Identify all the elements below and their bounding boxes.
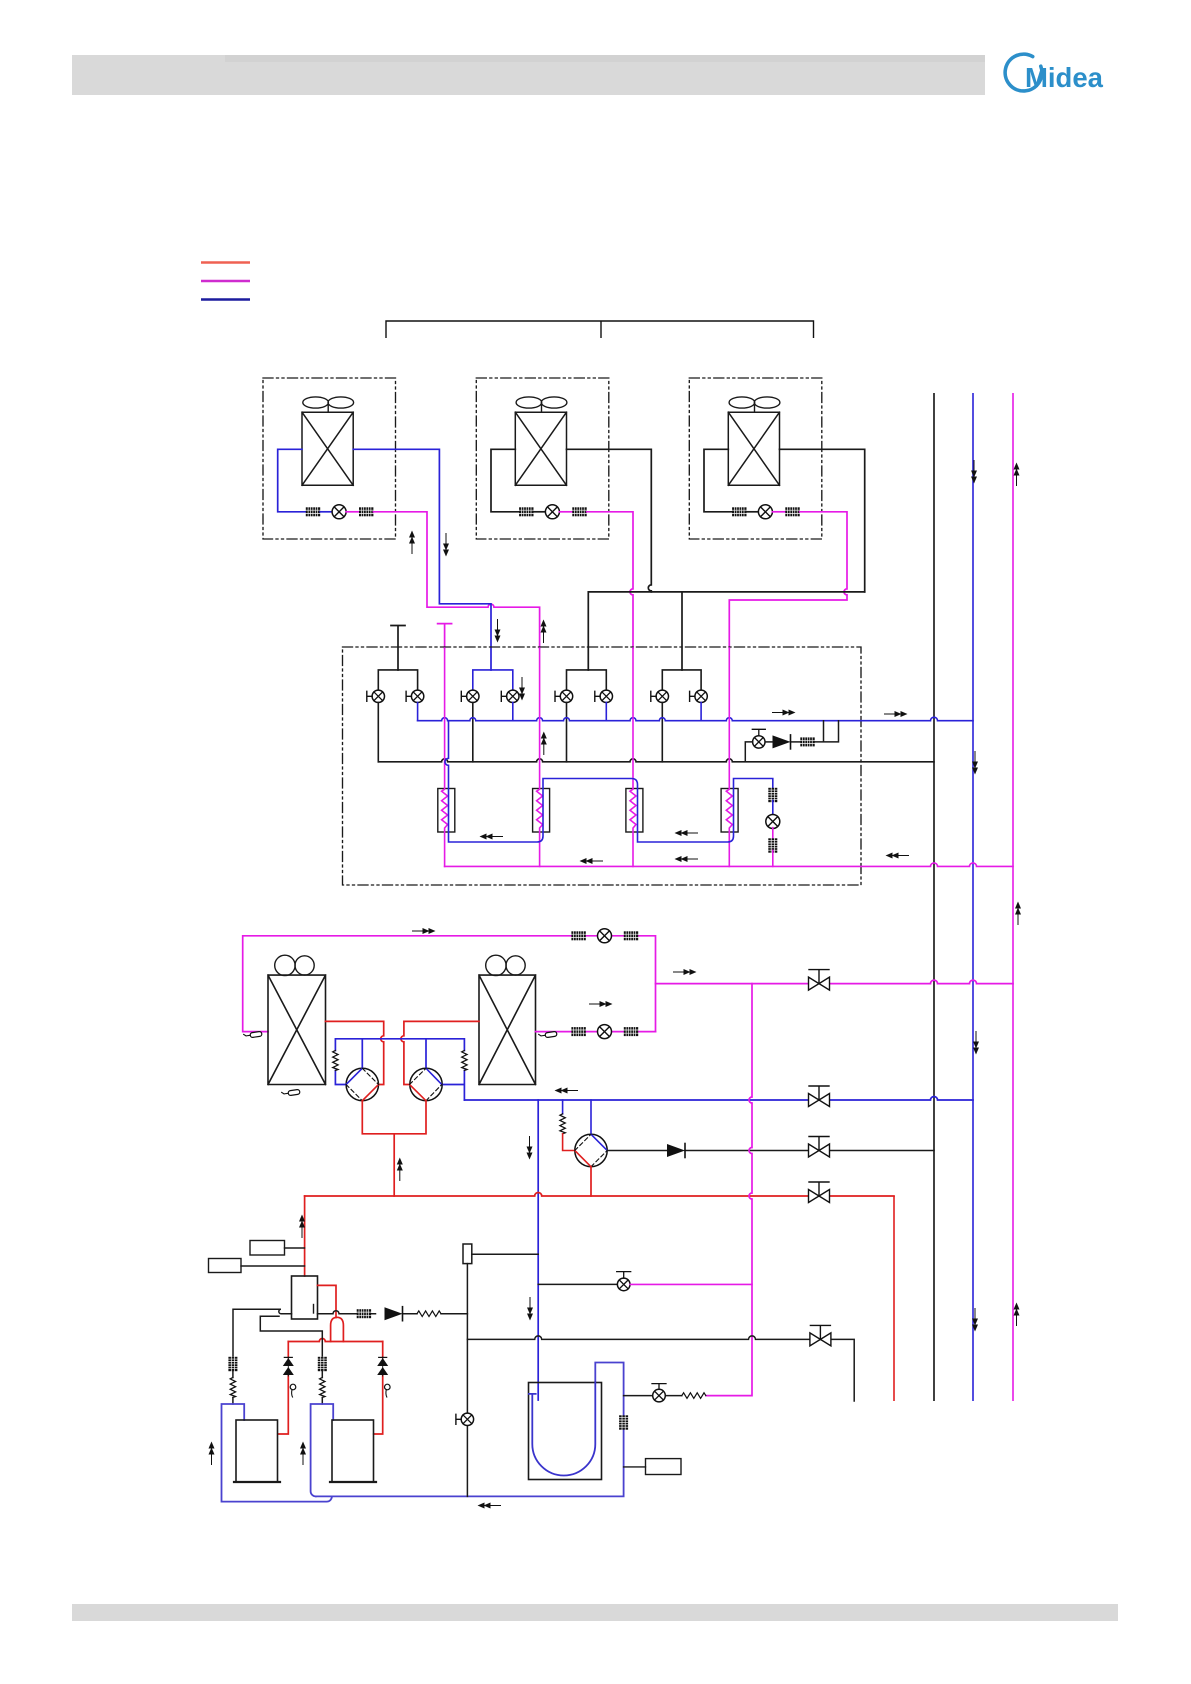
- oil nozzle 1: [290, 1384, 296, 1397]
- wire unit2 gas side: [491, 449, 519, 512]
- heat exchanger subcooler 3: [626, 789, 643, 833]
- filter unit3 b: [785, 507, 799, 516]
- check valve gas service: [667, 1144, 685, 1158]
- wire red discharge header: [288, 1339, 382, 1342]
- capillary subcool outlet upper: [768, 788, 777, 802]
- arrow left liquid bus 3: [886, 853, 910, 859]
- wire gas manifold to MS box: [588, 592, 864, 670]
- filter unit1 b: [359, 507, 373, 516]
- wire: [563, 1134, 575, 1151]
- ball valve service lower: [810, 1325, 831, 1346]
- wire magenta branch 2 coil: [537, 648, 543, 866]
- wire red HX-A to 4wv1: [326, 1021, 384, 1084]
- wire pair1 right leg: [417, 703, 419, 721]
- arrow right magenta top: [412, 928, 436, 934]
- wire red discharge manifold: [362, 1101, 426, 1196]
- heat exchanger ODU B: [479, 975, 536, 1084]
- wire magenta drop line: [706, 984, 752, 1396]
- wire strainer to gas drop: [472, 1253, 538, 1255]
- expansion valve unit 1: [332, 505, 346, 519]
- arrow left odu gas bus: [555, 1088, 579, 1094]
- solenoid valve pair1 left: [367, 690, 385, 702]
- wire black gas service line: [607, 1150, 934, 1152]
- spring suction 2: [320, 1378, 325, 1398]
- wire: [320, 511, 332, 513]
- arrow down ms leg: [519, 677, 525, 701]
- solenoid valve pair2 left: [461, 690, 479, 702]
- check valve compressor 1: [283, 1357, 294, 1376]
- wire red to compressor 1: [278, 1342, 289, 1435]
- solenoid valve pair4 right: [690, 690, 708, 702]
- filter unit2 b: [572, 507, 586, 516]
- wire blue ODU gas bus: [464, 1097, 973, 1100]
- label accumulator box: [624, 1459, 681, 1475]
- wire: [745, 742, 752, 762]
- wire red discharge bus: [305, 1193, 894, 1197]
- indoor unit 1 enclosure: [263, 378, 396, 539]
- arrow up magenta riser 1: [1014, 463, 1020, 487]
- arrow down branch gas: [495, 619, 501, 643]
- wire 4wv3 bottom: [590, 1167, 592, 1196]
- solenoid valve bypass: [753, 736, 765, 748]
- arrow left subcool 2: [675, 830, 699, 836]
- wire black oil balance line: [624, 1395, 682, 1397]
- wire blue riser: [972, 393, 974, 1401]
- valve oil branch: [617, 1272, 631, 1291]
- expansion valve unit 2: [545, 505, 559, 519]
- wire 4wv3 feed: [562, 1100, 564, 1114]
- wire unit1 gas riser: [353, 449, 491, 670]
- check valve compressor 2: [377, 1357, 388, 1376]
- arrow down blue riser 4: [972, 1308, 978, 1332]
- bracket over indoor units: [386, 321, 814, 338]
- arrow down blue riser 2: [972, 751, 978, 775]
- wire pair4 left leg: [661, 703, 663, 762]
- ball valve gas bus: [809, 1086, 830, 1107]
- wire oil return branch 2: [260, 1316, 322, 1356]
- wire pair3 right leg: [605, 703, 607, 721]
- header gray bar: [72, 55, 985, 95]
- arrow down blue riser 1: [971, 460, 977, 484]
- expansion valve subcool: [766, 815, 780, 829]
- wire 4wv3 top: [590, 1100, 592, 1134]
- label sensor box 1: [250, 1241, 305, 1256]
- wire red HX-B to 4wv2: [401, 1021, 479, 1084]
- wire magenta liquid bus: [445, 863, 1013, 866]
- filter unit2 a: [519, 507, 533, 516]
- wire: [321, 1371, 323, 1404]
- arrow up discharge: [397, 1158, 403, 1182]
- heat exchanger subcooler 4: [721, 789, 738, 833]
- arrow up ms branch: [541, 732, 547, 756]
- wire unit1 liquid riser: [373, 512, 539, 648]
- arrow right blue bus end: [884, 711, 908, 717]
- indoor unit 2 enclosure: [476, 378, 609, 539]
- wire: [772, 801, 774, 816]
- arrow up branch2: [541, 620, 547, 644]
- node capped service stem: [391, 626, 405, 671]
- wire bypass drops: [814, 721, 838, 742]
- sensor HX-A inlet: [244, 1031, 262, 1038]
- wire blue gas bus: [418, 717, 973, 721]
- wire: [346, 511, 359, 513]
- wire: [232, 1371, 234, 1404]
- wire magenta HX-B outlet: [536, 1031, 656, 1033]
- fan unit 2: [516, 397, 567, 412]
- wire blue compressor 2 suction: [311, 1404, 334, 1496]
- wire pair3 left leg: [566, 703, 568, 762]
- wire: [791, 741, 801, 743]
- wire separator gas line: [318, 1311, 468, 1314]
- solenoid valve pair4 left: [651, 690, 669, 702]
- valve oil balance: [652, 1384, 666, 1402]
- wire red riser: [893, 1196, 895, 1401]
- arrow up magenta riser 3: [1014, 1303, 1020, 1327]
- wire bracket pair2: [473, 670, 513, 690]
- wire blue subcooling chain: [445, 721, 773, 842]
- filter suction 2: [318, 1357, 327, 1371]
- capillary subcool outlet lower: [768, 838, 777, 852]
- arrow down accum drop 2: [527, 1297, 533, 1321]
- wire: [772, 511, 785, 513]
- Midea logo: [1005, 54, 1104, 93]
- arrow left liquid bus 2: [675, 856, 699, 862]
- heat exchanger subcooler 2: [533, 789, 550, 833]
- wire magenta branch 1 coil: [442, 648, 448, 866]
- wire black service line lower: [467, 1336, 854, 1401]
- legend red line: [201, 261, 250, 263]
- wire blue suction bus: [316, 1363, 624, 1497]
- check valve bypass: [773, 735, 791, 749]
- arrow up separator: [299, 1215, 305, 1239]
- wire pair2 left leg: [472, 703, 474, 762]
- legend magenta line: [201, 280, 250, 282]
- node capped liquid stub: [438, 624, 452, 648]
- wire pair2 right leg: [512, 703, 514, 721]
- fan ODU A: [275, 955, 315, 975]
- wire blue compressor 1 suction: [222, 1404, 332, 1502]
- wire red discharge tee loop: [331, 1317, 344, 1341]
- capillary bypass: [800, 737, 814, 746]
- wire red to compressor 2: [374, 1342, 383, 1435]
- filter separator gas: [357, 1309, 371, 1318]
- spring oil balance: [682, 1393, 706, 1399]
- wire unit1 gas side: [278, 449, 306, 512]
- oil separator: [292, 1276, 318, 1319]
- arrow right liquid branch: [673, 969, 697, 975]
- wire accumulator inlet drop: [537, 1100, 539, 1400]
- wire: [559, 511, 572, 513]
- wire: [772, 828, 774, 840]
- spring suction right: [462, 1051, 467, 1071]
- heat exchanger unit 1: [302, 412, 353, 485]
- arrow up comp1: [209, 1442, 215, 1466]
- wire: [765, 741, 773, 743]
- wire: [772, 851, 774, 867]
- four-way valve 3: [575, 1134, 607, 1166]
- mode switch box enclosure: [343, 647, 862, 885]
- svg-text:Midea: Midea: [1025, 62, 1104, 93]
- wire unit3 gas side: [704, 449, 732, 512]
- wire unit2 liquid riser: [587, 512, 633, 648]
- strainer box: [463, 1244, 472, 1264]
- legend blue line: [201, 298, 250, 300]
- heat exchanger unit 2: [515, 412, 566, 485]
- wire black riser: [933, 393, 935, 1401]
- label sensor box 2: [209, 1259, 305, 1273]
- compressor 1: [234, 1420, 280, 1482]
- heat exchanger subcooler 1: [438, 789, 455, 833]
- wire magenta oil valve branch: [630, 1283, 752, 1285]
- compressor 2: [330, 1420, 376, 1482]
- four-way valve 2: [410, 1068, 443, 1100]
- arrow up comp2: [300, 1442, 306, 1466]
- expansion valve ODU mid: [598, 1025, 612, 1039]
- solenoid valve pair2 right: [501, 690, 519, 702]
- spring suction 1: [230, 1378, 235, 1398]
- wire red separator inlet: [304, 1196, 306, 1276]
- accumulator: [529, 1383, 602, 1480]
- filter ODU top a: [571, 931, 585, 940]
- oil nozzle 2: [385, 1384, 391, 1397]
- wire unit3 liquid riser: [729, 512, 847, 648]
- filter unit1 a: [306, 507, 320, 516]
- filter ODU top b: [624, 931, 638, 940]
- wire unit2 gas riser: [567, 449, 652, 592]
- filter unit3 a: [732, 507, 746, 516]
- fan ODU B: [486, 955, 525, 975]
- wire pair4 right leg: [700, 703, 702, 721]
- fan unit 1: [303, 397, 354, 412]
- ball valve gas service: [809, 1137, 830, 1158]
- wire black oil valve branch: [538, 1283, 617, 1285]
- wire pair1 left leg: [377, 703, 379, 762]
- arrow right blue bus ms: [772, 710, 796, 716]
- wire unit3 gas riser: [780, 449, 865, 592]
- wire magenta branch 4 coil: [726, 648, 732, 866]
- filter ODU mid a: [571, 1027, 585, 1036]
- arrow left subcool 1: [480, 834, 504, 840]
- wire: [747, 511, 759, 513]
- spring suction left: [333, 1051, 338, 1071]
- wire magenta riser: [1012, 393, 1014, 1401]
- arrow up magenta riser 2: [1015, 902, 1021, 926]
- arrow left suction bus: [478, 1503, 502, 1509]
- wire magenta branch 3 coil: [630, 648, 636, 866]
- sensor HX-B outlet: [539, 1031, 557, 1038]
- arrow left liquid bus 1: [580, 858, 604, 864]
- indoor unit 3 enclosure: [689, 378, 822, 539]
- filter suction bus: [619, 1415, 628, 1429]
- wire oil return hairpin: [233, 1309, 292, 1356]
- arrow down blue riser 3: [973, 1031, 979, 1055]
- ball valve liquid branch: [809, 970, 830, 991]
- wire liquid equalize vertical: [466, 1264, 468, 1497]
- spring 4wv3 feed: [560, 1114, 565, 1134]
- solenoid valve pair3 left: [555, 690, 573, 702]
- wire bracket pair4: [662, 670, 701, 690]
- sensor HX-A lower: [282, 1089, 300, 1096]
- expansion valve liquid equalize: [456, 1413, 474, 1425]
- expansion valve unit 3: [758, 505, 772, 519]
- wire bracket pair3: [567, 670, 607, 690]
- heat exchanger ODU A: [268, 975, 326, 1084]
- solenoid valve pair1 right: [406, 690, 424, 702]
- wire blue suction manifold: [335, 1039, 464, 1100]
- spring separator gas: [417, 1311, 441, 1317]
- arrow up unit1: [409, 531, 415, 555]
- wire bracket pair1: [378, 670, 417, 690]
- wire red separator outlet: [318, 1285, 337, 1317]
- wire black high-pressure bus: [378, 759, 934, 762]
- wire magenta liquid branch: [656, 980, 1014, 984]
- solenoid valve pair3 right: [595, 690, 613, 702]
- arrow down accum drop 1: [527, 1136, 533, 1160]
- arrow down unit1 gas: [443, 533, 449, 557]
- expansion valve ODU top: [598, 929, 612, 943]
- heat exchanger unit 3: [728, 412, 779, 485]
- arrow right mid: [589, 1001, 613, 1007]
- footer gray bar: [72, 1604, 1118, 1621]
- wire magenta ODU top line: [243, 936, 656, 1032]
- ball valve discharge: [809, 1182, 830, 1203]
- wire: [534, 511, 546, 513]
- filter ODU mid b: [624, 1027, 638, 1036]
- four-way valve 1: [346, 1068, 378, 1100]
- check valve separator gas: [385, 1307, 403, 1321]
- fan unit 3: [729, 397, 780, 412]
- filter suction 1: [228, 1357, 237, 1371]
